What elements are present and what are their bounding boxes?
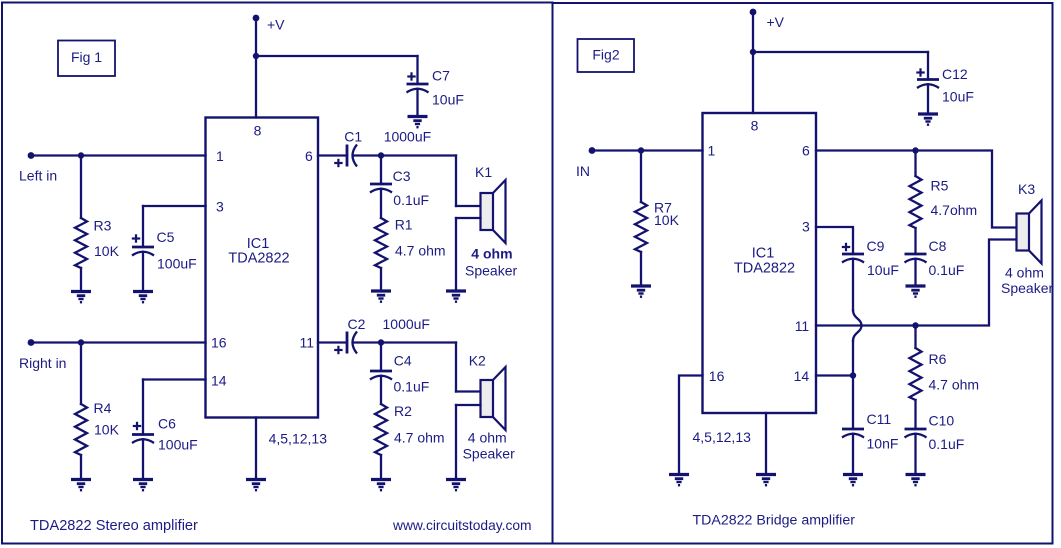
- svg-text:R2: R2: [394, 403, 412, 419]
- ground R4: [71, 480, 91, 491]
- svg-text:1: 1: [708, 143, 716, 159]
- svg-text:R1: R1: [395, 217, 413, 233]
- wire IN to pin 1: [592, 149, 703, 151]
- svg-text:14: 14: [211, 373, 227, 389]
- svg-text:Fig 1: Fig 1: [71, 49, 102, 65]
- svg-text:Speaker: Speaker: [1001, 280, 1053, 296]
- speaker K3: [1017, 214, 1030, 251]
- svg-text:16: 16: [709, 368, 725, 384]
- capacitor C1: [346, 145, 349, 167]
- junction pin 11 / R6: [912, 322, 918, 328]
- svg-text:C3: C3: [393, 168, 411, 184]
- wire Left in to pin 1: [31, 154, 206, 156]
- wire C4 top: [380, 343, 382, 372]
- wire pin 14 to C6: [143, 378, 206, 380]
- capacitor C3: [370, 183, 392, 186]
- svg-text:4 ohm: 4 ohm: [468, 430, 507, 446]
- svg-text:4 ohm: 4 ohm: [1005, 265, 1044, 281]
- svg-text:0.1uF: 0.1uF: [394, 379, 430, 395]
- svg-text:3: 3: [216, 199, 224, 215]
- wire pin 16 to ground: [679, 376, 703, 473]
- svg-text:Right in: Right in: [19, 355, 66, 371]
- wire C11 bottom: [852, 434, 854, 472]
- svg-text:R4: R4: [94, 400, 112, 416]
- wire IC bottom pins to ground (Fig1): [255, 418, 257, 478]
- svg-text:10nF: 10nF: [867, 436, 899, 452]
- junction Right in / R4: [78, 339, 84, 345]
- ground IC pins 4,5,12,13 (Fig2): [756, 475, 776, 486]
- capacitor C5: [132, 246, 154, 249]
- wire hop over pin 11 line: [853, 310, 862, 341]
- wire Right in to pin 16: [31, 341, 206, 343]
- junction C2 / C4: [378, 339, 384, 345]
- op-amp IC1 TDA2822 body (Fig1): [206, 118, 319, 418]
- wire C5 bottom: [142, 252, 144, 289]
- svg-text:C10: C10: [929, 413, 955, 429]
- svg-text:C11: C11: [867, 411, 892, 427]
- wire +V rail down to pin 8 (Fig1): [255, 18, 257, 118]
- wire R7 top: [640, 151, 642, 203]
- wire C3 top: [380, 156, 382, 185]
- svg-text:4.7 ohm: 4.7 ohm: [929, 377, 980, 393]
- wire +V rail to C12: [753, 51, 928, 53]
- capacitor C7 polarity +: [407, 75, 415, 77]
- ground R7: [631, 286, 651, 297]
- ground K1: [446, 291, 466, 302]
- svg-text:0.1uF: 0.1uF: [929, 436, 965, 452]
- wire R6 to C10: [914, 400, 916, 429]
- wire C6 top: [142, 380, 144, 435]
- wire hop to pin 14 junction: [852, 341, 854, 376]
- capacitor C5 polarity +: [132, 237, 140, 239]
- capacitor C4: [370, 370, 392, 373]
- wire pin 6 to K3 top: [816, 151, 1017, 228]
- wire K2 top terminal: [456, 390, 481, 392]
- panel Fig 1 border: [2, 3, 553, 544]
- wire K2 bottom terminal: [456, 404, 481, 406]
- svg-text:TDA2822 Stereo amplifier: TDA2822 Stereo amplifier: [30, 518, 198, 534]
- svg-text:R5: R5: [931, 178, 949, 194]
- svg-text:10K: 10K: [94, 422, 120, 438]
- ground K2: [446, 480, 466, 491]
- svg-text:11: 11: [795, 318, 810, 334]
- svg-text:R3: R3: [94, 218, 112, 234]
- svg-text:1: 1: [216, 148, 224, 164]
- resistor R7: [635, 202, 647, 252]
- capacitor C11: [842, 428, 864, 431]
- junction C1 / C3: [378, 152, 384, 158]
- wire IC bottom pins to ground (Fig2): [765, 413, 767, 472]
- wire +V rail to C7: [256, 55, 418, 57]
- svg-text:C6: C6: [158, 416, 176, 432]
- svg-text:4,5,12,13: 4,5,12,13: [693, 429, 752, 445]
- svg-text:10K: 10K: [94, 243, 120, 259]
- svg-text:C4: C4: [394, 353, 412, 369]
- svg-text:C5: C5: [157, 229, 175, 245]
- capacitor C1 polarity +: [334, 162, 342, 164]
- wire pin 11 to K3 bottom: [816, 240, 1017, 326]
- svg-text:4,5,12,13: 4,5,12,13: [269, 431, 328, 447]
- ground C8: [906, 286, 926, 297]
- ground C11: [843, 475, 863, 486]
- wire C6 bottom: [142, 439, 144, 477]
- svg-text:8: 8: [254, 123, 262, 139]
- wire R1 bottom: [380, 268, 382, 289]
- junction IN / R7: [638, 147, 644, 153]
- node Right in terminal: [28, 339, 35, 346]
- svg-text:14: 14: [794, 368, 810, 384]
- svg-text:TDA2822 Bridge amplifier: TDA2822 Bridge amplifier: [693, 513, 856, 529]
- svg-text:10K: 10K: [654, 212, 680, 228]
- wire pin 11 to C2: [318, 341, 347, 343]
- svg-text:4.7 ohm: 4.7 ohm: [395, 243, 446, 259]
- op-amp IC1 TDA2822 body (Fig2): [703, 113, 817, 413]
- speaker K1: [481, 193, 494, 230]
- capacitor C9: [842, 253, 864, 256]
- svg-text:0.1uF: 0.1uF: [393, 192, 429, 208]
- junction pin 6 / R5: [912, 147, 918, 153]
- capacitor C9 polarity +: [842, 246, 850, 248]
- svg-text:IN: IN: [576, 163, 590, 179]
- junction pin 14 / C11: [850, 372, 856, 378]
- capacitor C12 wire top: [927, 52, 929, 80]
- resistor R6: [910, 348, 922, 400]
- node IN terminal: [589, 147, 596, 154]
- svg-text:K2: K2: [469, 353, 486, 369]
- svg-text:16: 16: [211, 335, 227, 351]
- wire K2 feed down: [455, 343, 457, 392]
- wire C4 to R2: [380, 376, 382, 404]
- svg-text:C8: C8: [929, 238, 947, 254]
- wire R2 bottom: [380, 455, 382, 477]
- capacitor C7 wire top: [416, 56, 418, 84]
- node +V terminal (Fig2): [750, 9, 757, 16]
- svg-text:www.circuitstoday.com: www.circuitstoday.com: [392, 518, 532, 533]
- wire C12 bottom: [927, 84, 929, 111]
- wire K1 feed down: [455, 156, 457, 207]
- svg-text:6: 6: [305, 148, 313, 164]
- node Left in terminal: [28, 152, 35, 159]
- svg-text:TDA2822: TDA2822: [734, 261, 795, 277]
- svg-text:100uF: 100uF: [158, 437, 198, 453]
- wire C8 bottom: [914, 259, 916, 284]
- svg-text:11: 11: [300, 335, 315, 351]
- wire R7 bottom: [640, 252, 642, 284]
- node +V terminal (Fig1): [253, 15, 260, 22]
- capacitor C12: [917, 78, 939, 81]
- svg-text:IC1: IC1: [752, 246, 775, 262]
- ground R1: [371, 291, 391, 302]
- ground R2: [371, 480, 391, 491]
- wire R5 top: [914, 151, 916, 177]
- svg-text:C7: C7: [432, 68, 450, 84]
- capacitor C8: [905, 253, 927, 256]
- svg-text:10uF: 10uF: [432, 92, 464, 108]
- resistor R5: [910, 176, 922, 228]
- svg-text:10uF: 10uF: [942, 89, 974, 105]
- capacitor C6: [132, 433, 154, 436]
- junction +V rail (Fig2): [750, 49, 756, 55]
- wire pin 6 to C1: [318, 154, 347, 156]
- ground IC pins 4,5,12,13 (Fig1): [246, 480, 266, 491]
- svg-text:K1: K1: [475, 164, 492, 180]
- wire C9 down to hop: [852, 259, 854, 310]
- capacitor C7 wire bottom: [416, 89, 418, 114]
- wire R6 top: [914, 326, 916, 349]
- ground C12: [918, 114, 938, 125]
- capacitor C12 polarity +: [916, 71, 924, 73]
- junction +V rail (Fig1): [253, 53, 259, 59]
- wire C2 to K2 branch: [354, 341, 457, 343]
- capacitor C7: [407, 83, 429, 86]
- ground C5: [133, 292, 153, 303]
- wire R5 to C8: [914, 228, 916, 254]
- svg-text:100uF: 100uF: [157, 256, 197, 272]
- wire pin 14 stub: [816, 374, 853, 376]
- wire pin 3 to C9: [816, 227, 853, 254]
- svg-text:Speaker: Speaker: [465, 263, 517, 279]
- wire pin 3 to C5: [143, 205, 206, 207]
- svg-text:C2: C2: [348, 316, 366, 332]
- wire C3 to R1: [380, 189, 382, 218]
- wire C11 top: [852, 376, 854, 430]
- speaker K2: [481, 380, 494, 417]
- resistor R2: [375, 404, 387, 455]
- svg-text:3: 3: [802, 219, 810, 235]
- svg-text:1000uF: 1000uF: [383, 316, 430, 332]
- svg-text:6: 6: [802, 143, 810, 159]
- svg-text:+V: +V: [767, 14, 785, 30]
- capacitor C6 polarity +: [133, 425, 141, 427]
- wire +V rail down to pin 8 (Fig2): [752, 12, 754, 113]
- wire C1 to K1 branch: [354, 154, 457, 156]
- svg-text:K3: K3: [1018, 181, 1035, 197]
- svg-text:+V: +V: [267, 17, 285, 33]
- wire K1 top terminal: [456, 205, 481, 207]
- svg-text:Left in: Left in: [19, 168, 57, 184]
- svg-text:4.7 ohm: 4.7 ohm: [394, 430, 445, 446]
- svg-text:C1: C1: [344, 129, 362, 145]
- wire K2 to ground: [455, 405, 457, 477]
- ground C6: [133, 480, 153, 491]
- wire R3 top: [80, 156, 82, 219]
- panel Fig2 border: [553, 3, 1053, 544]
- svg-text:0.1uF: 0.1uF: [929, 262, 965, 278]
- ground C10: [906, 475, 926, 486]
- junction Left in / R3: [78, 152, 84, 158]
- resistor R4: [75, 404, 87, 455]
- capacitor C2: [346, 332, 349, 354]
- svg-text:1000uF: 1000uF: [384, 129, 431, 145]
- capacitor C2 polarity +: [334, 349, 342, 351]
- wire R3 bottom: [80, 268, 82, 289]
- svg-text:TDA2822: TDA2822: [228, 250, 289, 266]
- svg-text:C12: C12: [942, 66, 968, 82]
- svg-text:10uF: 10uF: [867, 262, 899, 278]
- svg-text:8: 8: [751, 118, 759, 134]
- Fig 1 label box: [58, 41, 115, 77]
- svg-text:4.7ohm: 4.7ohm: [931, 202, 978, 218]
- wire C10 bottom: [914, 434, 916, 472]
- ground C7: [408, 117, 428, 128]
- svg-text:R6: R6: [929, 351, 947, 367]
- ground pin 16 (Fig2): [669, 475, 689, 486]
- capacitor C10: [905, 428, 927, 431]
- wire R4 bottom: [80, 455, 82, 477]
- wire K1 bottom terminal: [456, 217, 481, 219]
- svg-text:C9: C9: [867, 238, 885, 254]
- ground R3: [71, 292, 91, 303]
- wire K1 to ground: [455, 218, 457, 289]
- Fig2 label box: [578, 39, 635, 72]
- svg-text:4 ohm: 4 ohm: [471, 246, 512, 262]
- resistor R3: [75, 218, 87, 268]
- wire C5 top: [142, 206, 144, 247]
- svg-text:Speaker: Speaker: [463, 446, 515, 462]
- resistor R1: [375, 218, 387, 268]
- wire R4 top: [80, 343, 82, 405]
- svg-text:Fig2: Fig2: [592, 47, 619, 63]
